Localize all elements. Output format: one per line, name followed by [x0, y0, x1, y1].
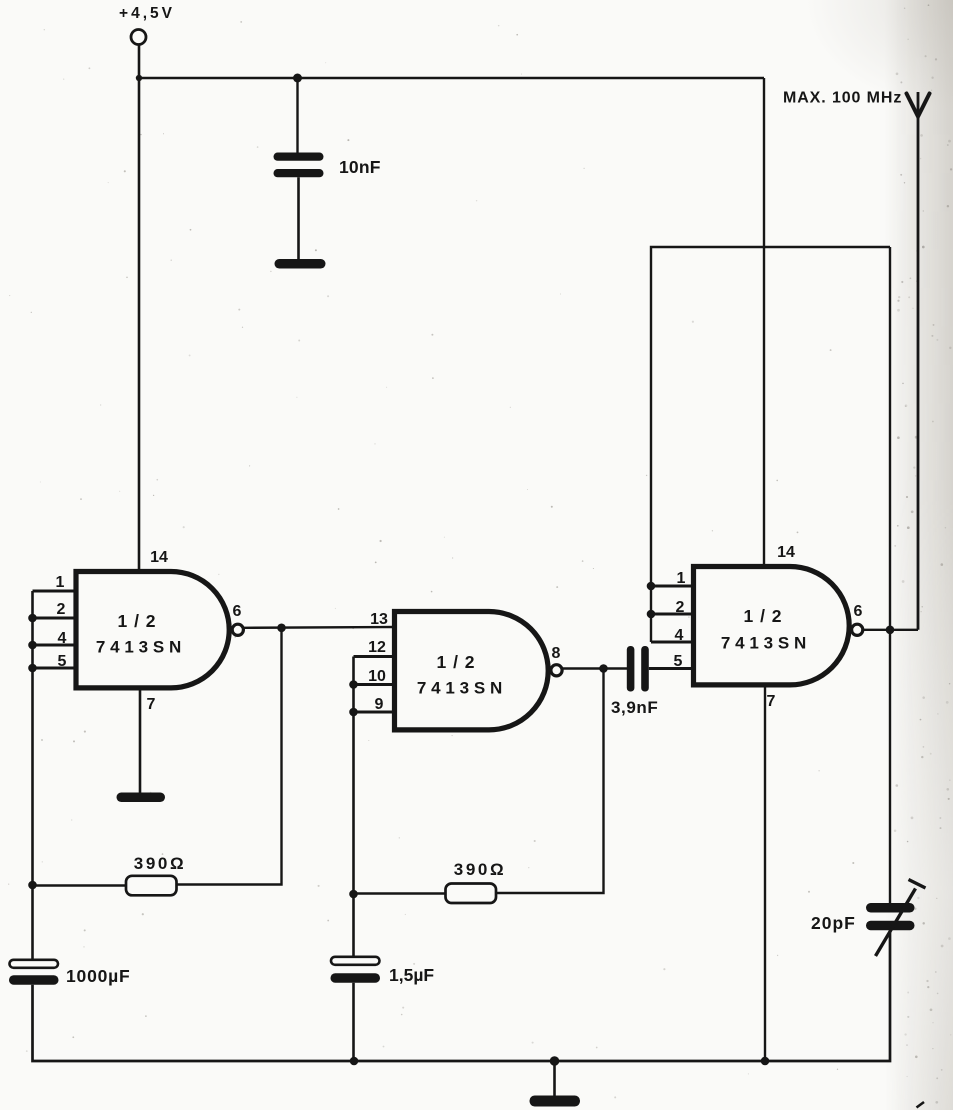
node U1c output: [886, 626, 895, 635]
U1b pin 12 stub: [354, 655, 395, 658]
ground bar U1a pin 7: [117, 793, 166, 803]
svg-text:1: 1: [56, 574, 65, 591]
node rail ground: [550, 1056, 560, 1066]
NAND gate U1b 1/2 7413SN: [395, 612, 563, 730]
power terminal +4,5V: [119, 5, 175, 45]
wire top supply rail: [139, 77, 764, 79]
wire C2 to bottom rail: [33, 985, 355, 1061]
svg-text:10nF: 10nF: [339, 157, 381, 177]
wire U1c pin 7 to rail: [764, 685, 766, 1061]
svg-text:1 / 2: 1 / 2: [117, 611, 156, 631]
wire U1b output: [562, 667, 627, 669]
svg-text:2: 2: [57, 601, 66, 618]
node rail C3: [350, 1057, 359, 1066]
svg-text:MAX. 100 MHz: MAX. 100 MHz: [783, 90, 902, 107]
wire U1c output to antenna: [863, 629, 918, 631]
svg-text:9: 9: [375, 696, 384, 713]
wire U1b output down to R2: [497, 669, 604, 894]
U1c pin 4 stub: [651, 641, 694, 644]
stray mark bottom right: [917, 1102, 925, 1108]
node U1b pin9: [349, 708, 358, 717]
wire U1a input bus: [31, 591, 34, 960]
svg-text:1000µF: 1000µF: [66, 966, 131, 986]
svg-text:3,9nF: 3,9nF: [611, 698, 658, 717]
svg-text:+4,5V: +4,5V: [119, 5, 175, 22]
capacitor C2 1000uF: [9, 960, 59, 985]
svg-text:390Ω: 390Ω: [134, 854, 186, 873]
node U1b output: [599, 664, 608, 673]
capacitor C1 10nF: [274, 153, 324, 178]
label U1c pin numbers: [674, 544, 863, 710]
wire U1a output to U1b pin 13: [243, 626, 394, 629]
svg-text:6: 6: [233, 603, 242, 620]
wire feedback top: [651, 247, 890, 642]
U1b pin 10 stub: [354, 683, 395, 686]
svg-text:7: 7: [147, 696, 156, 713]
wire C1 to ground bar: [297, 177, 300, 259]
U1a pin 4 stub: [33, 644, 77, 647]
wire R1 to input bus: [33, 884, 127, 886]
resistor R2 390 ohm: [446, 884, 497, 904]
svg-text:4: 4: [675, 627, 684, 644]
svg-text:1 / 2: 1 / 2: [436, 652, 475, 672]
svg-text:12: 12: [368, 639, 386, 656]
svg-text:14: 14: [777, 544, 795, 561]
NAND gate U1c 1/2 7413SN: [694, 567, 863, 685]
U1a pin 1 stub: [33, 590, 77, 593]
svg-text:1 / 2: 1 / 2: [743, 606, 782, 626]
U1a pin 5 stub: [33, 667, 77, 670]
antenna arrow output: [907, 92, 930, 630]
svg-text:2: 2: [676, 599, 685, 616]
svg-text:1,5µF: 1,5µF: [389, 965, 434, 985]
label U1a pin numbers: [56, 549, 242, 713]
ground bar under C1: [275, 259, 326, 269]
node bus R2: [349, 890, 358, 899]
svg-text:4: 4: [58, 630, 67, 647]
node U1a pin2: [28, 614, 37, 623]
wire U1b input bus: [352, 657, 355, 957]
node U1a pin4: [28, 641, 37, 650]
svg-text:7413SN: 7413SN: [96, 638, 186, 657]
wire U1a pin 7: [139, 688, 142, 793]
node U1a output: [277, 624, 286, 633]
wire U1a output down to R1: [177, 628, 282, 885]
U1a pin 2 stub: [33, 617, 77, 620]
node U1a pin5: [28, 664, 37, 673]
svg-text:7: 7: [767, 693, 776, 710]
wire C5 to bottom rail: [765, 930, 890, 1061]
svg-text:7413SN: 7413SN: [417, 679, 507, 698]
node U1c pin7 rail: [761, 1057, 770, 1066]
node U1b pin10: [349, 680, 358, 689]
node feedback pin1: [647, 582, 656, 591]
svg-text:1: 1: [677, 570, 686, 587]
wire C4 to U1c pin 5: [649, 667, 693, 670]
label U1b pin numbers: [368, 611, 560, 713]
wire rail to C1: [296, 78, 298, 153]
node feedback pin2: [647, 610, 656, 619]
svg-text:20pF: 20pF: [811, 913, 856, 933]
svg-text:10: 10: [368, 668, 386, 685]
wire R2 to U1b bus: [354, 892, 446, 894]
wire bottom rail: [354, 1060, 765, 1063]
wire U1c pin 14: [763, 78, 765, 567]
svg-text:7413SN: 7413SN: [721, 634, 811, 653]
wire V+ vertical to U1a pin 14: [138, 45, 141, 571]
svg-text:390Ω: 390Ω: [454, 860, 506, 879]
trimmer capacitor C5 20pF: [866, 880, 926, 957]
ground symbol bottom: [530, 1061, 581, 1107]
svg-text:14: 14: [150, 549, 168, 566]
capacitor C3 1,5uF: [331, 957, 381, 983]
node bus R1: [28, 881, 37, 890]
node rail to C1: [293, 74, 302, 83]
wire C3 to bottom rail: [352, 983, 355, 1061]
svg-text:13: 13: [370, 611, 388, 628]
NAND gate U1a 1/2 7413SN: [76, 572, 243, 688]
svg-text:5: 5: [674, 653, 683, 670]
capacitor C4 3,9nF: [627, 646, 649, 692]
svg-text:5: 5: [58, 653, 67, 670]
svg-text:6: 6: [854, 603, 863, 620]
wire feedback right vertical: [889, 247, 891, 903]
resistor R1 390 ohm: [126, 876, 177, 896]
U1c pin 1 stub: [651, 585, 694, 588]
svg-text:8: 8: [552, 645, 561, 662]
U1b pin 9 stub: [354, 711, 395, 714]
U1c pin 2 stub: [651, 613, 694, 616]
node rail corner: [136, 75, 142, 81]
